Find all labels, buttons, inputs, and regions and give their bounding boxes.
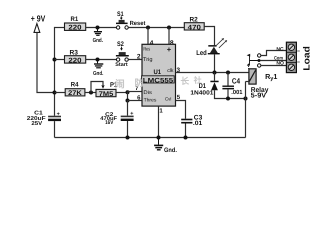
watermark glyphs	[115, 76, 202, 91]
terminal block Load	[286, 42, 299, 72]
diode D1 1N4001	[190, 73, 245, 99]
capacitor C3 .01	[181, 114, 203, 137]
svg-text:Gnd.: Gnd.	[93, 37, 104, 44]
svg-text:+ 9V: + 9V	[31, 13, 46, 23]
svg-text:S2: S2	[117, 41, 124, 48]
svg-text:Load: Load	[301, 46, 311, 71]
wire left rail vertical	[54, 27, 56, 116]
wire R3 to S2	[86, 59, 117, 61]
wire thres to pin6	[128, 100, 143, 102]
+9V supply label	[31, 13, 46, 23]
node thres junction	[126, 99, 130, 103]
resistor R4 27K	[65, 81, 85, 97]
wire coil return to bus	[245, 82, 247, 138]
node pin8 junction	[167, 26, 171, 30]
svg-text:5-9V: 5-9V	[251, 93, 267, 100]
wire R2 to LED	[204, 27, 214, 46]
wire pin8 drop	[168, 28, 170, 45]
label Com	[274, 55, 283, 61]
capacitor C1 220uF 25V	[27, 111, 61, 138]
svg-text:Gnd.: Gnd.	[93, 70, 104, 77]
svg-text:2: 2	[137, 53, 141, 60]
resistor R2 470	[184, 16, 204, 31]
svg-text:S1: S1	[117, 11, 124, 18]
wire R1 to S1	[86, 27, 117, 29]
node coil-return junction	[244, 97, 248, 101]
wire S1 to R2	[128, 27, 184, 29]
svg-text:Reset: Reset	[130, 20, 146, 27]
svg-text:470: 470	[188, 24, 201, 31]
LED label	[196, 49, 207, 57]
node rail-R3 junction	[53, 58, 57, 62]
node R4-P1 junction	[89, 91, 93, 95]
node R3 output junction	[96, 58, 100, 62]
svg-text:U1: U1	[154, 69, 162, 76]
wire rail to R1	[55, 27, 65, 29]
wire rail to R3 row	[55, 59, 65, 61]
svg-text:16V: 16V	[105, 120, 114, 126]
svg-text:闹: 闹	[115, 79, 125, 91]
potentiometer P1 7M5	[96, 82, 117, 98]
wire +9V stem down to rail junction	[37, 33, 55, 93]
wire pin5 to C3	[176, 101, 186, 119]
pushbutton S2	[115, 41, 129, 68]
wire LED to out node	[214, 54, 216, 72]
svg-text:.01: .01	[193, 120, 203, 127]
pin number 2	[137, 53, 141, 60]
wire P1 to dis/thres node	[116, 92, 128, 94]
wire P1 wiper loop	[91, 82, 105, 93]
svg-text:Start: Start	[115, 62, 128, 68]
relay coil Ry1	[246, 69, 278, 84]
relay contact Com	[250, 59, 287, 62]
resistor R3 220	[65, 50, 86, 65]
node C2-bus junction	[126, 136, 130, 140]
pin number 7	[135, 85, 139, 92]
svg-text:27K: 27K	[68, 90, 82, 97]
node out-C4 junction	[226, 71, 230, 75]
svg-text:.001: .001	[231, 89, 243, 96]
wire pin3 out	[176, 72, 249, 74]
svg-text:Cvl: Cvl	[165, 97, 171, 102]
+9V supply arrow	[34, 24, 40, 33]
node rail-R4 junction	[53, 91, 57, 95]
ground symbol G3	[154, 138, 177, 154]
wire R4 to P1	[85, 92, 96, 94]
node dis junction	[126, 90, 130, 94]
svg-text:R1: R1	[71, 16, 79, 23]
label NO	[276, 61, 284, 67]
wire thres node to C2	[127, 101, 129, 116]
ground symbol G2	[93, 60, 104, 78]
svg-text:R4: R4	[71, 81, 79, 88]
svg-text:Com: Com	[274, 55, 283, 61]
svg-text:Dis: Dis	[143, 90, 152, 96]
IC U1 LMC555	[142, 44, 176, 106]
resistor R1 220	[65, 16, 86, 31]
pin number 8	[170, 40, 174, 47]
pin number 6	[137, 94, 141, 101]
pin number 4	[150, 40, 154, 47]
svg-text:Trig: Trig	[143, 57, 153, 63]
wire dis-thres vertical	[127, 92, 129, 101]
svg-text:长: 长	[181, 76, 190, 86]
node pin1-bus junction	[157, 136, 161, 140]
wire pin4 drop	[147, 28, 149, 45]
label Load	[301, 46, 311, 71]
relay contact NC	[258, 51, 287, 58]
svg-text:Res: Res	[143, 47, 150, 53]
label NC	[276, 47, 284, 53]
ground symbol G1	[93, 28, 104, 45]
pin number 1	[159, 108, 163, 115]
pushbutton S1	[116, 11, 128, 29]
svg-text:NO: NO	[276, 61, 284, 67]
wire dis to pin7	[128, 91, 143, 93]
wire rail to R4	[55, 92, 66, 94]
svg-text:Gnd.: Gnd.	[164, 147, 177, 154]
node C4-return junction	[226, 97, 230, 101]
svg-text:C4: C4	[232, 77, 241, 86]
LED	[208, 38, 227, 54]
node pin4 junction	[146, 26, 150, 30]
svg-text:clk: clk	[167, 68, 174, 74]
capacitor C4 .001	[222, 73, 243, 99]
svg-text:社: 社	[193, 76, 202, 85]
relay contact NO	[258, 64, 287, 67]
svg-text:Led: Led	[196, 49, 207, 57]
svg-text:Thres: Thres	[144, 98, 157, 104]
wire pin1 to ground bus	[158, 106, 160, 137]
node out-LED junction	[213, 71, 217, 75]
svg-text:220: 220	[68, 57, 81, 64]
node C3-bus junction	[184, 136, 188, 140]
svg-text:LMC555: LMC555	[143, 77, 174, 84]
label Relay 5-9V	[251, 86, 269, 99]
label Reset	[130, 20, 146, 27]
relay armature	[247, 54, 251, 69]
wire S2 to pin2	[128, 59, 142, 61]
svg-text:1N4001: 1N4001	[190, 90, 214, 97]
svg-text:防: 防	[135, 78, 144, 88]
svg-text:7M5: 7M5	[99, 91, 114, 98]
svg-text:220: 220	[68, 25, 81, 32]
svg-text:+: +	[167, 45, 172, 54]
ground bus wire	[55, 137, 246, 139]
pin number 3	[177, 67, 181, 74]
capacitor C2 470uF 16V	[100, 111, 133, 138]
svg-text:25V: 25V	[31, 121, 42, 127]
pin number 5	[177, 94, 181, 101]
node R1 output junction	[96, 26, 100, 30]
svg-text:NC: NC	[276, 47, 284, 53]
